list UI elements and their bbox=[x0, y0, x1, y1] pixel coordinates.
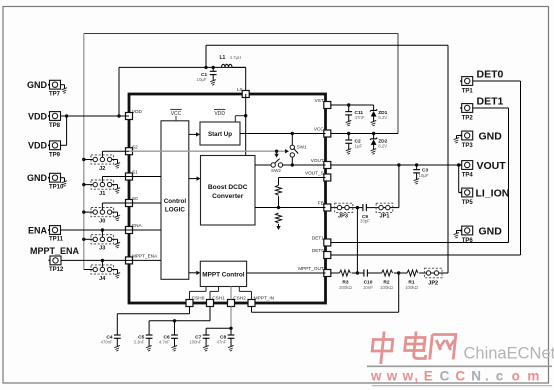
svg-text:VOUT_S: VOUT_S bbox=[305, 171, 324, 176]
svg-text:MPPT Control: MPPT Control bbox=[202, 271, 244, 278]
switch SW2 bbox=[271, 159, 283, 173]
capacitor C4 470nF bbox=[101, 334, 121, 346]
node junction CSH2/C7/C8 bbox=[229, 327, 232, 330]
ground below C1 bbox=[210, 80, 216, 86]
pin S2 (left) bbox=[126, 144, 139, 154]
svg-text:Control: Control bbox=[164, 198, 187, 205]
wire J2 to pin row bbox=[102, 151, 129, 157]
test point TP7 GND bbox=[27, 80, 61, 98]
watermark char dian bbox=[404, 332, 428, 359]
ground below ZD1 bbox=[371, 120, 377, 126]
wire VCC rail right drop to VCC row bbox=[397, 34, 399, 134]
wire R1 to JP2 bbox=[419, 272, 426, 274]
test point TP12 MPPT_ENA bbox=[30, 246, 80, 273]
svg-text:VOUT: VOUT bbox=[311, 158, 324, 163]
svg-text:MPPT_IN: MPPT_IN bbox=[254, 295, 274, 300]
svg-text:DET0: DET0 bbox=[477, 69, 504, 81]
resistor divider lower (internal) bbox=[276, 213, 282, 223]
test point TP9 VDD bbox=[28, 141, 61, 159]
wire MPPT_ENA stub bbox=[129, 259, 161, 261]
jumper JP1 bbox=[376, 203, 393, 219]
wire C9 to JP1 bbox=[366, 207, 378, 209]
capacitor C6 4.7nF bbox=[159, 334, 178, 346]
svg-text:TP5: TP5 bbox=[462, 200, 474, 206]
test point TP4 VOUT bbox=[460, 160, 506, 178]
wire DET1 row bbox=[331, 242, 509, 244]
node junction TP8/TP9 bbox=[65, 114, 68, 117]
svg-text:ENA: ENA bbox=[28, 225, 48, 235]
pin ENA (left) bbox=[126, 223, 143, 233]
wire TP9 riser bbox=[61, 116, 67, 145]
wire divider to gnd arrow bbox=[278, 224, 280, 227]
wire Start Up to VCC pin bbox=[240, 133, 326, 135]
resistor R2 100k bbox=[380, 270, 394, 290]
ground below C8 bbox=[228, 346, 234, 352]
svg-text:J2: J2 bbox=[99, 166, 105, 172]
svg-text:TP9: TP9 bbox=[49, 152, 61, 158]
pin MPPT_IN (bottom) bbox=[248, 295, 274, 306]
pin VCC (right) bbox=[314, 127, 331, 137]
capacitor C7 100nF bbox=[189, 334, 209, 346]
resistor R1 100k bbox=[405, 270, 419, 290]
pin CSH2 (bottom) bbox=[228, 295, 247, 306]
test point TP8 VDD bbox=[28, 111, 61, 129]
wire VDD riser x206 bbox=[205, 45, 207, 67]
op-amp U1 IC body bbox=[129, 94, 326, 303]
svg-text:.: . bbox=[485, 369, 489, 384]
svg-text:100nF: 100nF bbox=[189, 340, 201, 345]
pin S1 (left) bbox=[126, 170, 139, 180]
pin MPPT_ENA (left) bbox=[126, 254, 159, 264]
svg-text:100kΩ: 100kΩ bbox=[380, 285, 394, 290]
wire TP11 to ENA pin bbox=[61, 229, 130, 231]
test point TP11 ENA bbox=[28, 225, 64, 242]
svg-text:DET0: DET0 bbox=[312, 248, 324, 253]
svg-text:4.7nF: 4.7nF bbox=[159, 340, 170, 345]
wire FB pin to JP3 bbox=[331, 207, 338, 209]
wire JP2 to VDD drop bbox=[439, 272, 448, 274]
svg-text:J4: J4 bbox=[99, 276, 106, 282]
ground at J1 bbox=[115, 188, 121, 194]
wire MPPT Control stub CSH1 bbox=[210, 287, 219, 300]
capacitor C11 47nF bbox=[345, 105, 365, 122]
ground at J0 bbox=[115, 215, 121, 221]
pin MPPT_OUT (right) bbox=[298, 266, 331, 276]
wire VCC to SW1 bbox=[291, 134, 293, 146]
wire MPPT Control stub CSH2 (gray) bbox=[230, 287, 232, 300]
wire VCC rail top bbox=[84, 33, 398, 35]
wire R3 to C10 bbox=[352, 272, 364, 274]
pin CSH0 (bottom) bbox=[186, 295, 205, 306]
test point TP10 GND bbox=[27, 173, 64, 191]
ground below C5 bbox=[146, 346, 152, 352]
ground below ZD2 bbox=[371, 149, 377, 155]
wire VCC row bbox=[331, 133, 398, 135]
svg-text:10nF: 10nF bbox=[363, 285, 373, 290]
pin VOUT_S (right) bbox=[305, 171, 331, 181]
wire MPPT Control stub MPPT_IN bbox=[239, 287, 251, 300]
wire VOUT to TP4 bbox=[457, 164, 462, 166]
wire TP6 to ground bbox=[457, 231, 462, 234]
svg-text:TP10: TP10 bbox=[49, 185, 64, 191]
svg-text:VCC: VCC bbox=[314, 127, 325, 132]
wire C10 to R2 bbox=[367, 272, 381, 274]
capacitor C1 bbox=[197, 67, 217, 82]
svg-text:DET1: DET1 bbox=[312, 236, 324, 241]
wire DET0 row bbox=[331, 254, 521, 256]
svg-text:1µF: 1µF bbox=[355, 143, 363, 148]
wire VDD box left vertical bbox=[118, 67, 120, 116]
svg-text:33pF: 33pF bbox=[360, 218, 370, 223]
svg-text:VDD: VDD bbox=[132, 109, 143, 114]
wire J3 riser bbox=[101, 230, 103, 237]
svg-text:GND: GND bbox=[479, 130, 503, 142]
ground arrow internal bbox=[276, 226, 280, 230]
block MPPT Control bbox=[200, 261, 246, 286]
jumper J2 bbox=[84, 155, 118, 172]
svg-text:S0: S0 bbox=[132, 196, 138, 201]
ground at J3 bbox=[115, 242, 121, 248]
pin DET0 (right) bbox=[312, 248, 331, 258]
pin S0 (left) bbox=[126, 196, 139, 206]
svg-text:LOGIC: LOGIC bbox=[165, 207, 185, 214]
svg-text:J0: J0 bbox=[99, 218, 105, 224]
wire VOUT row bbox=[331, 164, 457, 166]
wire C7 branch bbox=[206, 328, 231, 335]
svg-text:TP2: TP2 bbox=[462, 115, 474, 121]
diode ZD2 8.2V bbox=[370, 134, 388, 150]
svg-text:Start Up: Start Up bbox=[208, 131, 232, 138]
svg-text:S2: S2 bbox=[132, 144, 138, 149]
svg-text:CSH1: CSH1 bbox=[212, 295, 225, 300]
switch SW1 bbox=[290, 145, 307, 157]
svg-text:C: C bbox=[455, 369, 465, 384]
ground at TP6 bbox=[454, 233, 460, 239]
test point TP1 DET0 bbox=[460, 69, 503, 95]
node junction VCC/C2 bbox=[347, 132, 350, 135]
wire FB node down to MPPT row bbox=[356, 208, 358, 273]
wire J1 to pin row bbox=[102, 177, 129, 183]
watermark separator line bbox=[367, 365, 552, 367]
ground below C7 bbox=[203, 346, 209, 352]
ground at J4 bbox=[115, 273, 121, 279]
node junction rail/J1 bbox=[82, 183, 85, 186]
wire S0 stub bbox=[129, 202, 161, 204]
node VDD junction at C1 riser bbox=[204, 66, 207, 69]
watermark ChinaECNet bbox=[464, 345, 554, 363]
capacitor C8 47nF bbox=[217, 334, 235, 346]
node VDD junction at C1 top bbox=[212, 66, 215, 69]
block Boost DCDC Converter bbox=[201, 156, 256, 226]
jumper J1 bbox=[84, 180, 118, 197]
wire MPPT_IN path bbox=[252, 273, 399, 312]
svg-text:3.3nF: 3.3nF bbox=[134, 340, 145, 345]
svg-text:w: w bbox=[386, 369, 398, 384]
wire FB internal bbox=[255, 207, 326, 209]
svg-text:VST: VST bbox=[315, 98, 324, 103]
wire C6 riser bbox=[174, 321, 176, 335]
block Control LOGIC bbox=[161, 121, 189, 279]
node junction rail/J2 bbox=[82, 158, 85, 161]
ground below C6 bbox=[172, 346, 178, 352]
svg-text:10µF: 10µF bbox=[197, 77, 207, 82]
svg-text:SW2: SW2 bbox=[271, 168, 281, 173]
wire TP3 to ground bbox=[457, 136, 462, 139]
node junction MPPT_ENA/J4 bbox=[101, 259, 104, 262]
ground below C2 bbox=[346, 149, 352, 155]
svg-text:TP12: TP12 bbox=[49, 267, 64, 273]
wire JP1 up to VOUT bbox=[390, 165, 399, 208]
wire SW2 to junction bbox=[283, 164, 293, 166]
svg-text:VDD: VDD bbox=[28, 141, 48, 151]
svg-text:GND: GND bbox=[27, 80, 48, 90]
svg-text:200kΩ: 200kΩ bbox=[339, 285, 353, 290]
wire Start Up VDD to LX net bbox=[235, 116, 245, 122]
svg-text:TP1: TP1 bbox=[462, 88, 474, 94]
label VCC overline above Control LOGIC bbox=[170, 109, 181, 120]
pin DET1 (right) bbox=[312, 236, 331, 246]
wire TP7 to ground bbox=[61, 85, 65, 89]
wire DET1 riser to TP2 bbox=[472, 108, 508, 243]
node junction VDD-startup on LX vertical bbox=[244, 114, 247, 117]
svg-text:N: N bbox=[471, 369, 481, 384]
wire R2 to R1 bbox=[394, 272, 407, 274]
svg-text:MPPT_ENA: MPPT_ENA bbox=[30, 246, 80, 256]
wire TP5 riser bbox=[459, 165, 462, 193]
wire L1 to LX pin bbox=[245, 67, 247, 90]
svg-text:w: w bbox=[402, 369, 414, 384]
node junction VST/C11 bbox=[347, 103, 350, 106]
svg-text:S1: S1 bbox=[132, 170, 138, 175]
node junction VOUT/FB riser bbox=[397, 163, 400, 166]
wire arrow Control to Start Up bbox=[189, 132, 200, 136]
svg-text:C: C bbox=[440, 369, 450, 384]
wire LX vertical inside IC bbox=[245, 94, 247, 156]
ground at J2 bbox=[115, 163, 121, 169]
svg-text:JP1: JP1 bbox=[380, 213, 390, 219]
svg-text:TP7: TP7 bbox=[49, 92, 61, 98]
node junction rail/J0 bbox=[82, 210, 85, 213]
node junction C6 top bbox=[173, 319, 176, 322]
svg-text:JP2: JP2 bbox=[428, 281, 438, 287]
inductor L1 4.7uH bbox=[220, 55, 246, 67]
svg-text:MPPT_OUT: MPPT_OUT bbox=[298, 266, 324, 271]
svg-text:47nF: 47nF bbox=[217, 340, 227, 345]
wire VDD right drop to JP2 bbox=[447, 45, 449, 273]
svg-text:TP4: TP4 bbox=[462, 172, 474, 178]
wire MPPT Control to MPPT_OUT pin bbox=[247, 272, 326, 274]
ground below C3 bbox=[414, 179, 420, 185]
svg-text:MPPT_ENA: MPPT_ENA bbox=[132, 254, 158, 259]
wire J0 to pin row bbox=[102, 203, 129, 210]
svg-text:VDD: VDD bbox=[28, 111, 48, 121]
wire MPPT_OUT pin to R3 bbox=[331, 272, 340, 274]
svg-text:GND: GND bbox=[479, 225, 503, 237]
block Start Up bbox=[200, 122, 240, 145]
svg-text:DET1: DET1 bbox=[477, 96, 504, 108]
svg-text:TP6: TP6 bbox=[462, 238, 474, 244]
capacitor C9 33pF bbox=[360, 204, 370, 223]
svg-text:47nF: 47nF bbox=[355, 115, 365, 120]
node junction R2/MPPT_IN riser bbox=[397, 271, 400, 274]
node junction rail/J3 bbox=[82, 238, 85, 241]
svg-text:Boost DCDC: Boost DCDC bbox=[208, 184, 248, 191]
node junction divider/FB bbox=[277, 206, 280, 209]
svg-text:ChinaECNet: ChinaECNet bbox=[464, 345, 554, 363]
wire J4 riser bbox=[101, 260, 103, 267]
svg-text:ENA: ENA bbox=[132, 223, 143, 228]
watermark char zhong bbox=[371, 332, 394, 365]
wire S2 control line (gray) bbox=[129, 150, 286, 152]
jumper J3 bbox=[84, 235, 118, 252]
svg-text:Converter: Converter bbox=[212, 193, 244, 200]
wire arrow Control to Boost bbox=[189, 176, 201, 180]
watermark char wang bbox=[430, 335, 456, 360]
node junction on S2 control line bbox=[275, 150, 278, 153]
svg-text:o: o bbox=[512, 369, 520, 384]
wire CSH2 riser (gray) bbox=[230, 307, 232, 329]
svg-text:CSH0: CSH0 bbox=[192, 295, 205, 300]
svg-text:J3: J3 bbox=[99, 246, 105, 252]
ground at TP7 bbox=[62, 88, 68, 94]
svg-text:TP8: TP8 bbox=[49, 123, 61, 129]
node junction VOUT/C3 bbox=[415, 163, 418, 166]
svg-text:J1: J1 bbox=[99, 191, 105, 197]
wire TP8 to VDD pin bbox=[61, 115, 130, 117]
capacitor C10 10nF bbox=[363, 269, 373, 289]
wire VDD top line bbox=[206, 44, 448, 46]
svg-text:c: c bbox=[496, 369, 504, 384]
jumper JP3 bbox=[335, 203, 353, 219]
pin LX (top) bbox=[237, 87, 249, 98]
svg-text:VDD: VDD bbox=[214, 111, 225, 117]
node junction ENA/J3 bbox=[101, 228, 104, 231]
svg-text:JP3: JP3 bbox=[338, 213, 348, 219]
svg-text:10µF: 10µF bbox=[419, 173, 429, 178]
capacitor C3 10uF bbox=[413, 165, 429, 180]
wire CSH0 to C4 bbox=[117, 307, 189, 336]
wire VST row bbox=[331, 104, 374, 106]
svg-text:CSH2: CSH2 bbox=[233, 295, 246, 300]
wire VOUT_S from pin bbox=[279, 178, 326, 186]
svg-text:8.2V: 8.2V bbox=[378, 144, 387, 149]
svg-text:L1: L1 bbox=[220, 55, 226, 61]
svg-text:LX: LX bbox=[237, 87, 244, 92]
watermark www.ECCN.com bbox=[370, 369, 539, 384]
wire ENA stub bbox=[129, 229, 161, 231]
wire DET0 riser to TP1 bbox=[472, 81, 520, 255]
wire MPPT Control stub CSH0 bbox=[190, 287, 207, 300]
jumper J0 bbox=[84, 208, 118, 225]
pin VOUT (right) bbox=[311, 158, 331, 168]
svg-text:FB: FB bbox=[318, 201, 324, 206]
node junction R3/FB riser bbox=[356, 271, 359, 274]
pin CSH1 (bottom) bbox=[207, 295, 226, 306]
test point TP2 DET1 bbox=[460, 96, 503, 122]
ground at TP10 bbox=[62, 181, 68, 187]
wire CSH1 to C5 C6 bbox=[149, 307, 210, 336]
resistor R3 200k bbox=[339, 270, 353, 290]
jumper JP2 bbox=[424, 268, 442, 286]
pin FB (right) bbox=[318, 201, 331, 211]
svg-text:TP3: TP3 bbox=[462, 143, 474, 149]
svg-text:VOUT: VOUT bbox=[477, 160, 507, 172]
svg-text:TP11: TP11 bbox=[49, 237, 64, 243]
wire VDD horizontal y67 bbox=[119, 66, 246, 68]
wire TP12 to MPPT_ENA pin bbox=[61, 259, 129, 261]
svg-text:LI_ION: LI_ION bbox=[476, 188, 510, 200]
svg-text:SW1: SW1 bbox=[297, 145, 307, 150]
wire JP3 to node bbox=[349, 207, 363, 209]
svg-text:E: E bbox=[424, 369, 433, 384]
svg-text:w: w bbox=[370, 369, 382, 384]
wire VOUT inside to pin bbox=[292, 164, 325, 166]
wire VCC rail left vertical bbox=[83, 34, 85, 270]
node junction VDD box bbox=[117, 114, 120, 117]
svg-text:m: m bbox=[527, 369, 539, 384]
wire Boost to SW2 bbox=[255, 164, 271, 166]
node junction VCC/ZD2 bbox=[372, 132, 375, 135]
node junction VCC/SW1 bbox=[291, 132, 294, 135]
svg-text:GND: GND bbox=[27, 173, 48, 183]
label VDD overline above Start Up bbox=[214, 109, 225, 117]
wire TP10 to ground bbox=[61, 178, 65, 182]
node junction FB/C9/riser bbox=[356, 206, 359, 209]
pin VDD (left) bbox=[126, 109, 143, 119]
svg-text:4.7µH: 4.7µH bbox=[230, 55, 242, 60]
jumper J4 bbox=[84, 265, 118, 282]
ground at TP3 bbox=[454, 138, 460, 144]
test point TP6 GND bbox=[460, 225, 502, 244]
wire arrow to SW1 bbox=[285, 149, 289, 153]
wire arrow Control to MPPT Control bbox=[189, 271, 201, 275]
svg-text:,: , bbox=[414, 369, 418, 384]
wire SW1 to VOUT line bbox=[291, 157, 293, 165]
wire S1 stub bbox=[129, 176, 161, 178]
capacitor C5 3.3nF bbox=[134, 334, 153, 346]
test point TP5 LI_ION bbox=[460, 188, 509, 206]
resistor divider upper (internal) bbox=[276, 185, 282, 195]
wire divider mid bbox=[278, 196, 280, 207]
node junction VOUT/TP5 riser bbox=[457, 163, 460, 166]
node junction SW1/VOUT bbox=[291, 163, 294, 166]
pin VST (right) bbox=[315, 98, 331, 108]
capacitor C2 1uF bbox=[345, 134, 362, 150]
ground below C11 bbox=[346, 120, 352, 126]
ground below C4 bbox=[114, 346, 120, 352]
svg-text:100kΩ: 100kΩ bbox=[405, 285, 419, 290]
diode ZD1 8.2V bbox=[370, 105, 388, 122]
wire C8 riser bbox=[230, 328, 232, 335]
svg-text:8.2V: 8.2V bbox=[378, 115, 387, 120]
svg-text:470nF: 470nF bbox=[101, 340, 113, 345]
test point TP3 GND bbox=[460, 130, 502, 149]
watermark bottom line bbox=[372, 385, 552, 387]
wire arrow down to SW2 bbox=[274, 151, 278, 158]
